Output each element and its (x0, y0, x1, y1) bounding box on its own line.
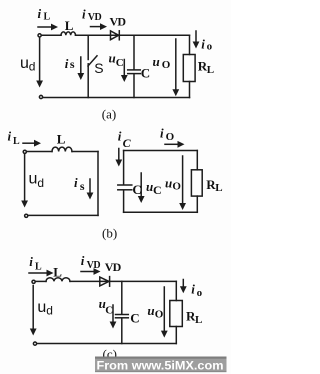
svg-text:i: i (201, 37, 205, 52)
wire: left rail lower (b-right) (123, 190, 125, 212)
label u_C (a) (109, 50, 124, 68)
svg-text:VD: VD (88, 12, 102, 23)
svg-text:L: L (35, 262, 42, 273)
label u_C (c) (99, 296, 114, 317)
current arrow i_o (a) (193, 31, 200, 49)
svg-text:u: u (109, 50, 116, 65)
capacitor C branch upper wire (a) (133, 35, 135, 69)
svg-text:L: L (195, 314, 202, 326)
svg-text:u: u (37, 299, 46, 316)
svg-text:u: u (165, 176, 172, 191)
diode VD (c) (100, 277, 110, 287)
svg-text:u: u (153, 54, 160, 69)
resistor RL box (b) (191, 170, 202, 196)
current arrow i_o (c) (180, 280, 187, 294)
label i_o (c) (191, 282, 202, 300)
label u_C (b) (146, 179, 162, 197)
svg-text:O: O (155, 309, 164, 321)
current arrow i_L (c) (29, 270, 54, 277)
voltage arrow u_d (a) (36, 38, 43, 88)
label u_O (c) (147, 303, 163, 321)
svg-text:u: u (29, 171, 38, 188)
switch S blade (88, 56, 97, 66)
svg-text:VD: VD (105, 260, 122, 274)
wire: top rail right (b) (72, 151, 98, 153)
label i_C (b) (118, 129, 132, 151)
label u_O (b) (165, 176, 181, 193)
capacitor C branch lower wire (a) (133, 74, 135, 97)
label R_L (b) (206, 177, 222, 194)
wire: top rail right segment (c) (70, 280, 176, 282)
capacitor branch lower wire (c) (121, 318, 123, 343)
wire: bottom rail (c) (37, 343, 176, 345)
wire: bottom rail (a) (43, 97, 190, 99)
wire: left rail upper (b-right) (123, 151, 125, 185)
wire: bottom rail (b-right) (124, 211, 198, 213)
label R_L (a) (198, 59, 214, 77)
capacitor C plates (c) (116, 315, 129, 318)
inductor L (c) (46, 278, 70, 282)
svg-text:i: i (8, 128, 12, 143)
label i_L (a) (38, 6, 51, 23)
capacitor branch upper wire (c) (121, 281, 123, 314)
svg-text:i: i (65, 56, 69, 71)
label R_L (c) (186, 309, 202, 327)
current arrow i_s (a) (77, 57, 84, 80)
svg-text:(b): (b) (102, 225, 117, 240)
svg-text:s: s (70, 57, 75, 71)
label i_VD (a) (82, 7, 102, 24)
node: - input terminal (a) (39, 95, 42, 98)
capacitor C plates (a) (128, 70, 141, 74)
svg-text:s: s (80, 179, 85, 193)
svg-text:O: O (166, 131, 175, 143)
svg-text:d: d (29, 60, 36, 74)
svg-text:C: C (141, 66, 150, 81)
diode VD (a) (111, 31, 120, 40)
wire: top rail middle segment (a) (76, 34, 190, 36)
wire: right rail (b-left) (97, 152, 99, 216)
label u_d (c) (37, 299, 52, 318)
resistor RL box (a) (183, 55, 195, 82)
svg-text:O: O (172, 181, 181, 193)
wire: right rail lower (c) (175, 327, 177, 344)
svg-text:C: C (130, 311, 139, 326)
label i_s (b) (74, 175, 85, 193)
switch S branch wire upper (a) (87, 35, 89, 59)
wire: top rail left segment (c) (35, 280, 46, 282)
label u_d (b) (29, 171, 45, 190)
current arrow i_VD (a) (91, 23, 108, 30)
svg-text:S: S (94, 60, 103, 76)
svg-text:VD: VD (110, 15, 127, 29)
label i_s (a) (65, 56, 75, 71)
current arrow i_VD (c) (81, 268, 101, 275)
svg-text:d: d (37, 176, 44, 190)
svg-text:C: C (123, 136, 132, 150)
svg-text:i: i (191, 282, 195, 297)
svg-text:o: o (207, 40, 213, 52)
node: + terminal (b) (23, 150, 26, 153)
svg-text:C: C (132, 182, 141, 197)
voltage arrow u_O (a) (172, 39, 179, 96)
switch S branch wire lower (a) (87, 64, 89, 98)
wire: right rail upper (c) (175, 281, 177, 300)
svg-text:i: i (82, 7, 86, 22)
wire: top rail (b-right) (124, 150, 198, 152)
svg-text:i: i (160, 125, 164, 140)
svg-text:u: u (147, 303, 154, 318)
voltage arrow u_O (c) (161, 287, 168, 338)
svg-text:C: C (105, 305, 113, 317)
voltage arrow u_C (c) (110, 305, 117, 329)
wire: right rail lower (b-right) (196, 196, 198, 212)
label u_d (a) (20, 55, 35, 74)
label i_o (b) (160, 125, 175, 143)
svg-text:VD: VD (87, 260, 101, 271)
wire: bottom rail (b-left) (28, 214, 98, 216)
node: + input terminal (c) (32, 280, 35, 283)
svg-text:u: u (20, 55, 29, 72)
node: - input terminal (c) (33, 342, 36, 345)
svg-text:L: L (215, 182, 222, 194)
current arrow i_L (b) (23, 140, 41, 147)
svg-text:o: o (197, 287, 203, 299)
svg-text:i: i (118, 129, 122, 144)
voltage arrow u_O (b) (179, 156, 186, 210)
current arrow i_L (a) (38, 24, 58, 31)
watermark banner (95, 357, 227, 373)
voltage arrow u_d (c) (30, 286, 37, 336)
svg-text:L: L (53, 265, 62, 280)
wire: right rail upper (a) (189, 35, 191, 54)
label i_L (b) (8, 128, 21, 147)
wire: right rail upper (b-right) (196, 151, 198, 170)
resistor RL box (c) (170, 301, 183, 327)
current arrow i_o (b) (165, 141, 185, 148)
svg-text:(a): (a) (102, 106, 116, 121)
voltage arrow u_d (b) (21, 155, 28, 208)
svg-text:i: i (29, 254, 33, 269)
svg-text:C: C (116, 57, 124, 69)
voltage arrow u_C (a) (121, 60, 128, 83)
voltage arrow u_C (b) (138, 173, 145, 203)
svg-text:L: L (44, 12, 51, 23)
svg-text:L: L (57, 132, 66, 147)
inductor L (a) (61, 32, 76, 35)
capacitor C plates (b) (118, 185, 132, 190)
label i_L (c) (29, 254, 42, 273)
current arrow i_C (b) (115, 149, 122, 167)
svg-text:d: d (46, 304, 53, 318)
inductor L (b) (52, 147, 72, 151)
svg-text:i: i (81, 253, 85, 268)
svg-text:L: L (65, 18, 74, 33)
svg-text:i: i (38, 6, 42, 21)
wire: right rail lower (a) (189, 82, 191, 98)
wire: top rail left (b) (27, 151, 52, 153)
svg-text:From www.5iMX.com: From www.5iMX.com (97, 359, 224, 373)
svg-text:i: i (74, 175, 78, 190)
current arrow i_s (b) (87, 179, 94, 200)
label i_VD (c) (81, 253, 101, 271)
label i_o (a) (201, 37, 212, 53)
label u_O (a) (153, 54, 171, 71)
wire: top rail left segment (a) (42, 34, 61, 36)
svg-text:O: O (162, 59, 171, 71)
svg-text:C: C (153, 183, 162, 197)
node: - terminal (b) (25, 214, 28, 217)
node: + input terminal (a) (38, 34, 41, 37)
svg-text:L: L (13, 136, 20, 147)
svg-text:L: L (207, 64, 214, 76)
